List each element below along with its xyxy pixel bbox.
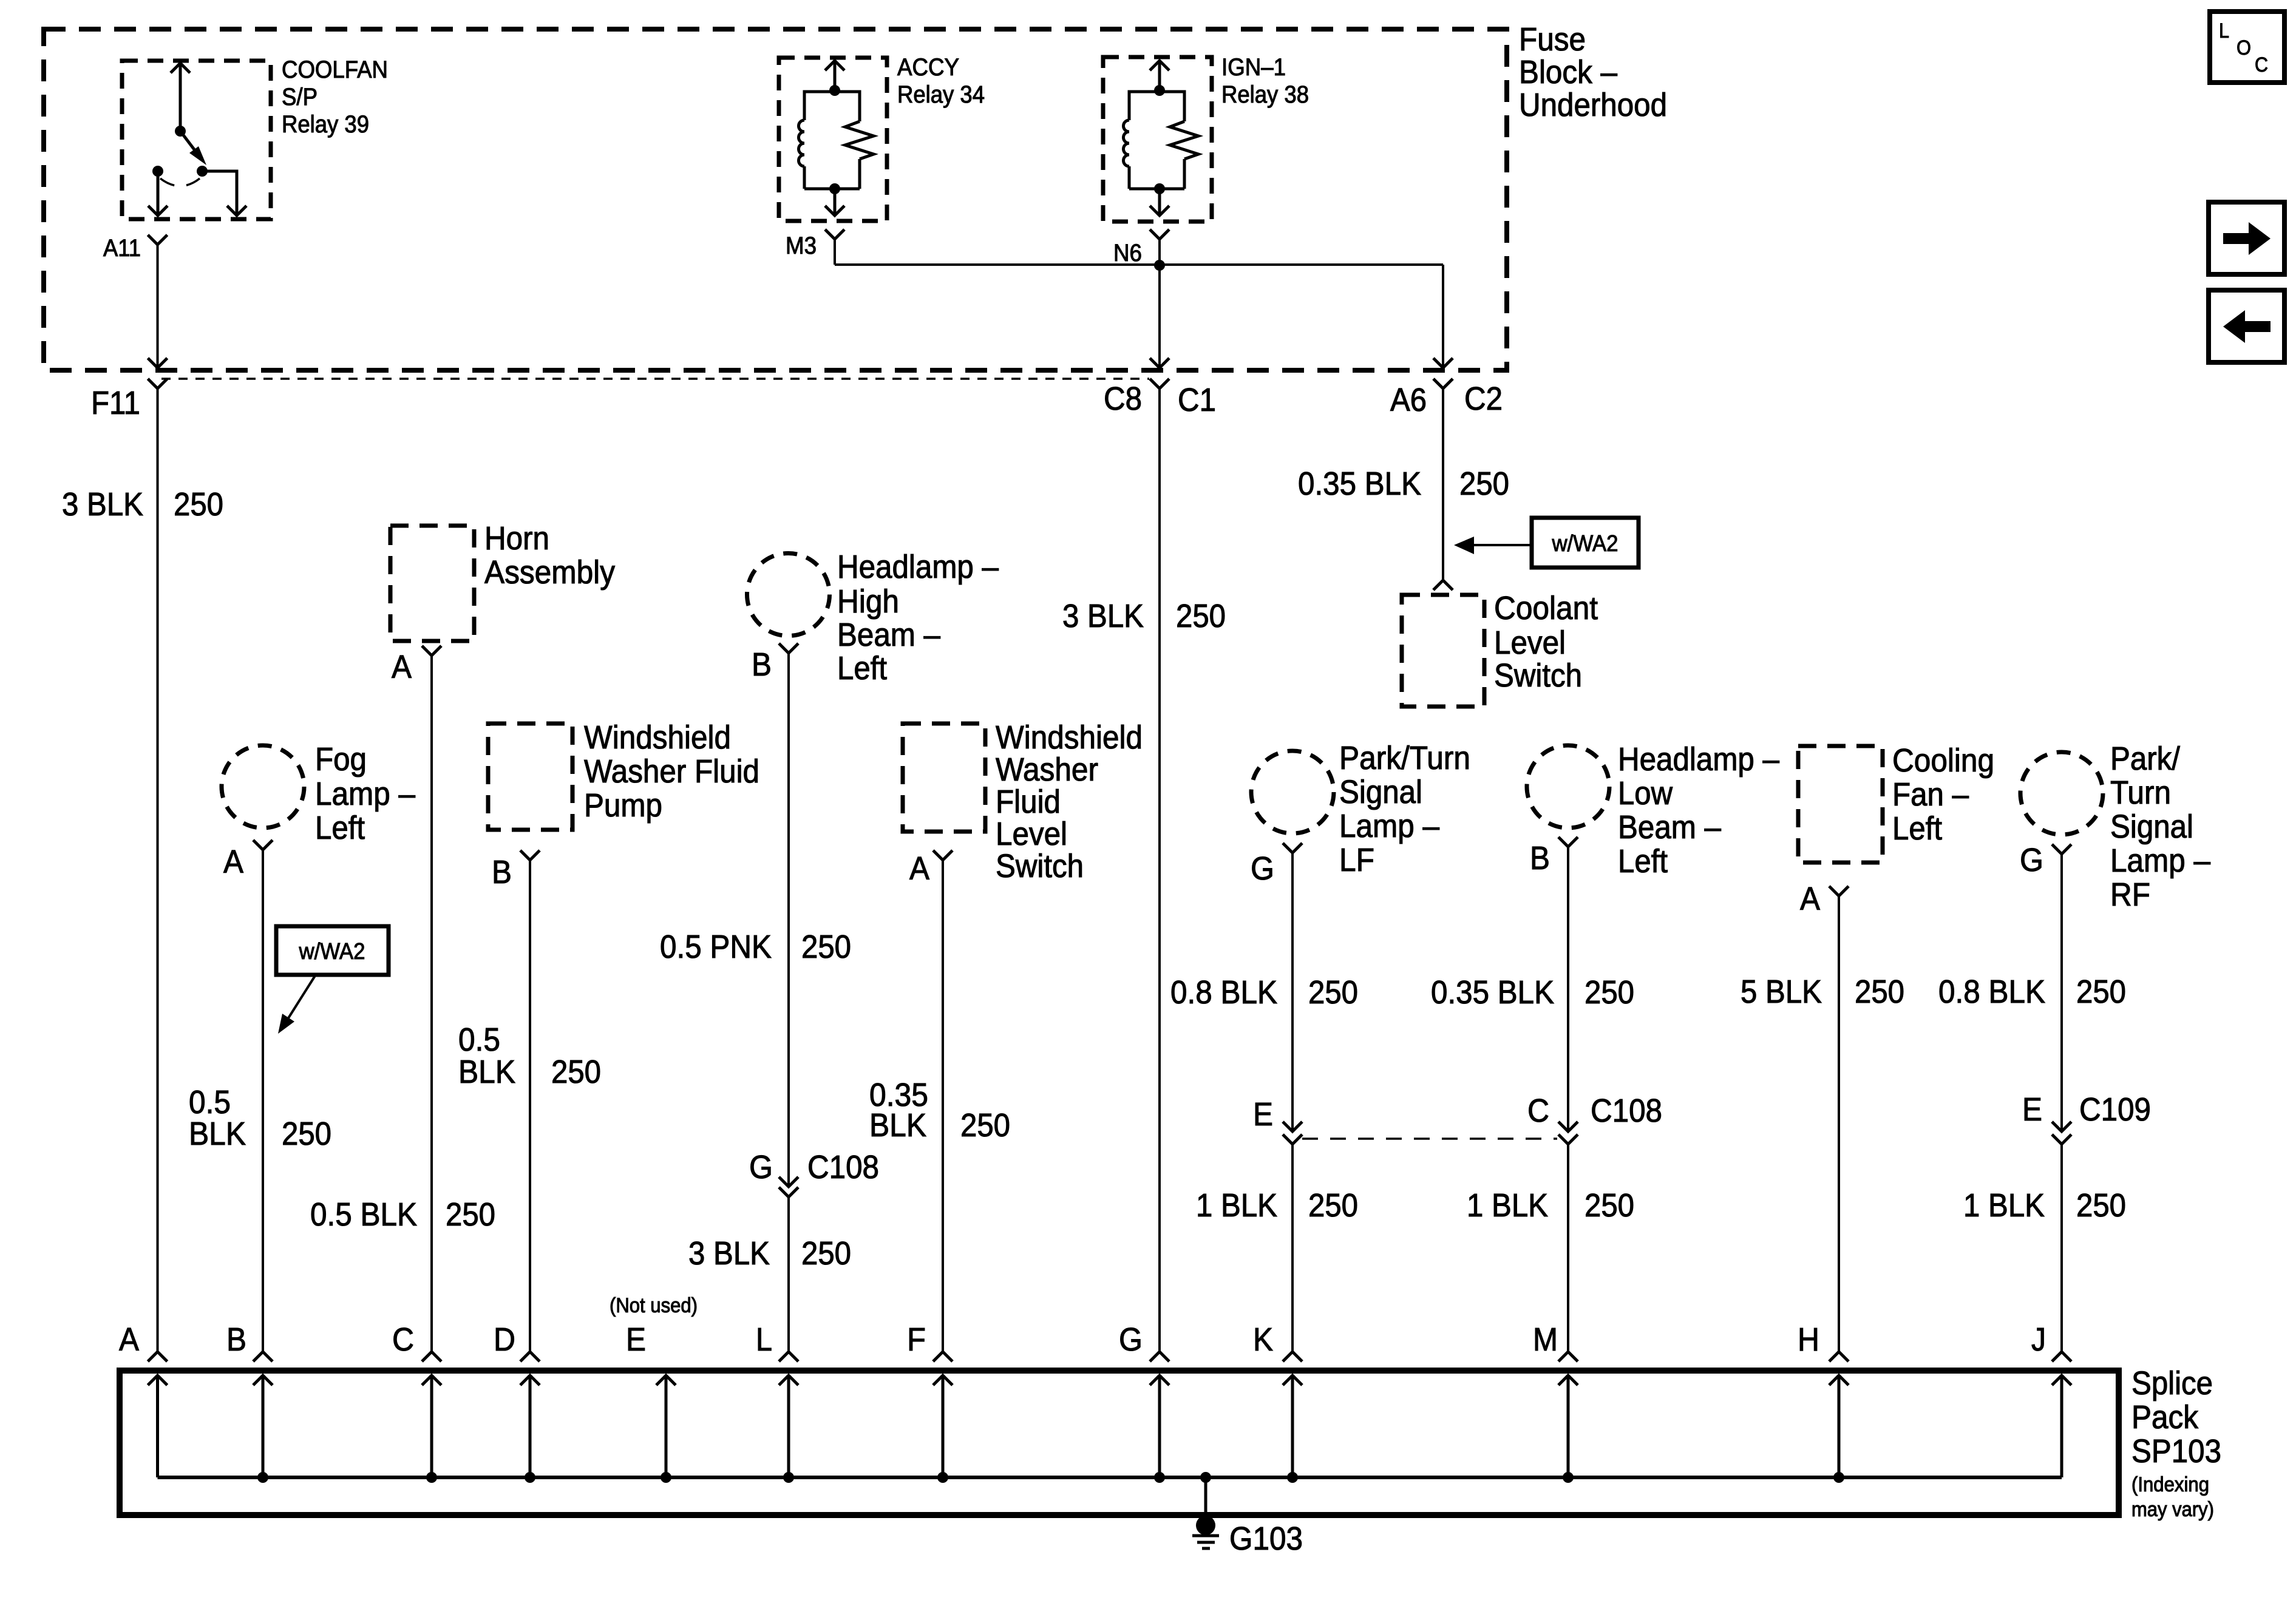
svg-text:A6: A6: [1390, 382, 1427, 418]
svg-text:A: A: [119, 1321, 139, 1358]
headlamp high beam left (dashed circle): [747, 554, 830, 636]
svg-text:Pack: Pack: [2131, 1399, 2199, 1436]
windshield washer fluid pump (dashed box): [488, 724, 572, 830]
relay K39 label: [282, 56, 388, 138]
svg-text:O: O: [2237, 36, 2251, 59]
callout arrow w/WA2 to C2 wire: [1454, 537, 1532, 554]
relay K34 coil winding (left branch): [799, 92, 835, 189]
svg-text:BLK: BLK: [869, 1107, 926, 1144]
cooling fan label: [1892, 742, 1994, 847]
svg-text:IGN–1: IGN–1: [1221, 54, 1286, 81]
svg-text:F11: F11: [91, 385, 140, 421]
svg-text:Fluid: Fluid: [996, 784, 1061, 820]
wire cooling fan to splice terminal H: [1838, 896, 1840, 1352]
svg-text:0.35 BLK: 0.35 BLK: [1298, 466, 1421, 502]
wire label 0.5 PNK 250: [660, 929, 851, 965]
svg-text:BLK: BLK: [189, 1116, 246, 1152]
svg-text:250: 250: [2076, 974, 2126, 1010]
wire label 0.8 BLK 250 (RF wire): [1938, 974, 2126, 1010]
wire label 5 BLK 250 (cooling fan wire): [1741, 974, 1904, 1010]
svg-text:may vary): may vary): [2131, 1498, 2214, 1521]
terminal A wire end connector: [148, 1352, 168, 1361]
svg-text:A: A: [223, 844, 243, 880]
wire park/turn LF upper segment: [1291, 853, 1294, 1131]
pin G connector (park/turn LF): [1283, 843, 1302, 853]
splice stub C: [422, 1375, 441, 1483]
pin B connector (washer pump): [520, 850, 540, 860]
headlamp low beam label: [1618, 741, 1779, 880]
svg-text:E: E: [1253, 1096, 1273, 1133]
svg-text:250: 250: [1459, 466, 1509, 502]
svg-text:Windshield: Windshield: [584, 719, 731, 756]
coolant level switch label: [1494, 590, 1598, 694]
park/turn signal lamp LF (dashed circle): [1251, 751, 1334, 833]
svg-text:Underhood: Underhood: [1519, 87, 1667, 123]
relay K34 label: [897, 54, 985, 108]
LOC legend box: [2210, 12, 2284, 83]
relay K39 throw arc (dashed): [160, 178, 200, 186]
svg-text:G: G: [1119, 1321, 1143, 1358]
wire low beam upper segment: [1567, 847, 1569, 1131]
svg-text:C109: C109: [2079, 1091, 2151, 1128]
relay K39 movable contact arm (diagonal arrow): [180, 131, 206, 165]
svg-text:COOLFAN: COOLFAN: [282, 56, 388, 83]
svg-text:Assembly: Assembly: [484, 554, 615, 591]
wire C1 to splice pack terminal G: [1158, 388, 1161, 1352]
relay K38 suppression resistor (right branch): [1160, 92, 1198, 189]
headlamp low beam left (dashed circle): [1527, 745, 1609, 828]
pin G connector (park/turn RF): [2052, 844, 2071, 854]
wire label 1 BLK 250 (RF lower): [1963, 1187, 2126, 1224]
svg-text:Headlamp –: Headlamp –: [1618, 741, 1779, 778]
svg-text:F: F: [907, 1321, 926, 1358]
wire park/turn RF upper segment: [2060, 854, 2063, 1131]
svg-text:B: B: [226, 1321, 246, 1358]
terminal H wire end connector: [1829, 1352, 1849, 1361]
relay K34 coil feed arrow (top): [825, 61, 844, 96]
svg-text:Washer: Washer: [996, 751, 1098, 788]
svg-text:K: K: [1253, 1321, 1273, 1358]
svg-text:G: G: [749, 1149, 773, 1185]
svg-text:250: 250: [1584, 1187, 1634, 1224]
relay K38 label: [1221, 54, 1309, 108]
wire M3 stem: [834, 239, 836, 265]
connector C108 on high beam wire (male/female halves): [779, 1177, 798, 1197]
cooling fan left (dashed box): [1798, 746, 1883, 863]
relay K34 suppression resistor (right branch): [835, 92, 874, 189]
svg-text:Relay 34: Relay 34: [897, 81, 985, 108]
svg-text:1 BLK: 1 BLK: [1467, 1187, 1548, 1224]
terminal G wire end connector: [1150, 1352, 1169, 1361]
wire label 1 BLK 250 (low beam lower): [1467, 1187, 1634, 1224]
fog lamp label: [315, 741, 415, 846]
splice stub J: [2052, 1375, 2071, 1477]
wire label 0.5 BLK 250 (fog wire): [189, 1084, 331, 1152]
relay K39 COOLFAN S/P Relay 39 (dashed box): [122, 61, 271, 219]
pin B connector (low beam): [1558, 837, 1578, 847]
svg-text:Fog: Fog: [315, 741, 367, 778]
terminal F wire end connector: [933, 1352, 953, 1361]
wire fog lamp to splice terminal B: [262, 850, 264, 1352]
pin B connector (high beam): [779, 643, 798, 653]
splice stub A: [148, 1375, 168, 1477]
svg-text:J: J: [2031, 1321, 2046, 1358]
splice stub B: [253, 1375, 273, 1483]
ground G103 drop wire: [1200, 1472, 1211, 1517]
connector exit F11 (female half): [148, 379, 168, 388]
svg-text:Fan –: Fan –: [1892, 776, 1969, 813]
svg-text:Left: Left: [837, 650, 887, 686]
svg-text:Lamp –: Lamp –: [315, 776, 415, 812]
wire M3 to C2 feed (horizontal): [835, 263, 1443, 266]
fuse block label: [1519, 21, 1667, 123]
connector C108 pin E on LF wire (male/female halves): [1283, 1122, 1302, 1144]
svg-text:250: 250: [1176, 598, 1226, 634]
svg-text:Coolant: Coolant: [1494, 590, 1598, 626]
splice stub L: [779, 1375, 798, 1483]
splice stub E: [656, 1375, 676, 1483]
svg-text:1 BLK: 1 BLK: [1196, 1187, 1277, 1224]
callout box w/WA2 (coolant wire): [1532, 518, 1639, 568]
pin A connector (fluid level switch): [933, 850, 953, 860]
wire label 0.8 BLK 250 (LF wire): [1170, 974, 1358, 1011]
svg-text:B: B: [492, 854, 512, 890]
svg-text:E: E: [2022, 1091, 2042, 1128]
svg-text:Cooling: Cooling: [1892, 742, 1994, 779]
relay K38 coil feed arrow (top): [1150, 61, 1169, 96]
wire label 3 BLK 250 (C1 wire): [1062, 598, 1226, 634]
pin A11 connector: [148, 235, 168, 245]
svg-text:D: D: [494, 1321, 515, 1358]
svg-text:LF: LF: [1339, 842, 1374, 878]
connector at coolant level switch (wire end): [1433, 580, 1453, 590]
wire label 0.5 BLK 250 (horn wire): [310, 1196, 495, 1233]
svg-text:0.8 BLK: 0.8 BLK: [1170, 974, 1277, 1011]
svg-text:Relay 39: Relay 39: [282, 111, 369, 138]
windshield washer fluid pump label: [584, 719, 759, 824]
relay K34 coil return arrow (bottom): [804, 183, 860, 215]
svg-text:Low: Low: [1618, 775, 1673, 812]
svg-text:E: E: [626, 1321, 646, 1358]
relay K38 coil return arrow (bottom): [1129, 183, 1184, 215]
terminal C wire end connector: [422, 1352, 441, 1361]
svg-text:G103: G103: [1229, 1520, 1303, 1557]
svg-text:BLK: BLK: [458, 1054, 515, 1090]
svg-text:C: C: [2255, 53, 2268, 76]
svg-text:0.5: 0.5: [458, 1022, 500, 1058]
svg-text:3 BLK: 3 BLK: [1062, 598, 1144, 634]
horn assembly (dashed box): [390, 526, 474, 641]
ground G103 symbol: [1192, 1516, 1219, 1548]
svg-text:Level: Level: [996, 816, 1067, 852]
relay K34 ACCY Relay 34 (dashed box): [779, 58, 887, 221]
svg-text:Fuse: Fuse: [1519, 21, 1586, 58]
windshield washer fluid level switch label: [996, 719, 1143, 884]
pin M3 connector: [825, 229, 844, 239]
relay K38 coil winding (left branch): [1124, 92, 1160, 189]
svg-text:Left: Left: [1618, 843, 1668, 880]
svg-text:Signal: Signal: [2110, 808, 2193, 845]
svg-text:250: 250: [1308, 1187, 1358, 1224]
pin N6 connector: [1150, 229, 1169, 239]
wire N6 stem: [1158, 239, 1161, 265]
svg-text:250: 250: [1855, 974, 1904, 1010]
svg-text:N6: N6: [1113, 240, 1142, 266]
svg-text:Turn: Turn: [2110, 775, 2171, 811]
wire down to C2 exit: [1442, 265, 1444, 368]
wire A11 to F11 exit: [157, 245, 159, 368]
svg-text:0.5 PNK: 0.5 PNK: [660, 929, 772, 965]
wire label 3 BLK 250 (F11 wire): [62, 486, 223, 523]
svg-text:Switch: Switch: [1494, 657, 1582, 694]
pin A connector (horn): [422, 646, 441, 656]
wire label 3 BLK 250 (high beam lower): [688, 1235, 851, 1272]
svg-text:Switch: Switch: [996, 848, 1084, 884]
svg-text:250: 250: [960, 1107, 1010, 1144]
svg-text:Signal: Signal: [1339, 774, 1422, 810]
fog lamp left (dashed circle): [222, 745, 304, 828]
terminal J wire end connector: [2052, 1352, 2071, 1361]
svg-text:Washer Fluid: Washer Fluid: [584, 753, 759, 790]
terminal M wire end connector: [1558, 1352, 1578, 1361]
wire fluid level switch to splice terminal F: [942, 860, 944, 1352]
svg-text:S/P: S/P: [282, 84, 318, 110]
wire high beam lower segment to splice terminal L: [787, 1197, 790, 1352]
park/turn signal lamp RF label: [2110, 741, 2210, 913]
svg-text:Beam –: Beam –: [837, 617, 940, 653]
terminal K wire end connector: [1283, 1352, 1302, 1361]
svg-text:C108: C108: [1591, 1093, 1662, 1129]
svg-text:C1: C1: [1178, 382, 1216, 418]
svg-text:M3: M3: [786, 232, 817, 259]
svg-text:250: 250: [1308, 974, 1358, 1011]
wire C2 to coolant level switch: [1442, 388, 1444, 580]
svg-text:A11: A11: [103, 235, 141, 262]
wire label 0.35 BLK 250 (fluid level switch wire): [869, 1077, 1010, 1144]
svg-text:L: L: [756, 1321, 772, 1358]
svg-text:C108: C108: [807, 1149, 879, 1185]
harness separator (thin dashed line): [161, 378, 1149, 380]
splice stub H: [1829, 1375, 1849, 1483]
callout box w/WA2 (fog lamp wire): [276, 926, 389, 975]
nav arrow box (back): [2209, 290, 2284, 362]
svg-text:250: 250: [446, 1196, 495, 1233]
svg-text:RF: RF: [2110, 876, 2150, 913]
terminal L wire end connector: [779, 1352, 798, 1361]
svg-text:A: A: [1800, 881, 1820, 917]
svg-text:Relay 38: Relay 38: [1221, 81, 1309, 108]
svg-text:w/WA2: w/WA2: [1552, 531, 1618, 557]
connector C108 pin C on low beam wire (male/female halves): [1558, 1122, 1578, 1144]
svg-text:Park/Turn: Park/Turn: [1339, 740, 1470, 776]
svg-text:Lamp –: Lamp –: [1339, 808, 1439, 844]
park/turn signal lamp LF label: [1339, 740, 1470, 878]
relay K39 NC contact (left, arrow down to A11): [148, 166, 168, 215]
wire horn to splice pack terminal C: [430, 656, 433, 1352]
svg-text:3 BLK: 3 BLK: [688, 1235, 770, 1272]
svg-text:Park/: Park/: [2110, 741, 2180, 777]
connector exit C8/C1 (female half): [1150, 379, 1169, 388]
windshield washer fluid level switch (dashed box): [903, 724, 985, 832]
svg-text:Windshield: Windshield: [996, 719, 1143, 756]
wire low beam lower segment to splice terminal M: [1567, 1144, 1569, 1352]
relay K38 IGN-1 Relay 38 (dashed box): [1103, 57, 1212, 222]
headlamp high beam label: [837, 549, 999, 686]
wire park/turn LF lower segment to splice terminal K: [1291, 1144, 1294, 1352]
svg-text:Beam –: Beam –: [1618, 809, 1721, 846]
splice stub M: [1558, 1375, 1578, 1483]
wire N6 down to C1 exit: [1158, 265, 1161, 368]
svg-text:3 BLK: 3 BLK: [62, 486, 143, 523]
terminal B wire end connector: [253, 1352, 273, 1361]
svg-text:Left: Left: [315, 810, 365, 846]
horn assembly label: [484, 520, 615, 591]
svg-text:B: B: [1530, 840, 1550, 876]
svg-text:A: A: [392, 649, 412, 685]
svg-text:High: High: [837, 583, 899, 620]
relay K39 switch common arm (arrow up to pin 30): [171, 63, 190, 137]
node junction at N6: [1154, 260, 1165, 271]
svg-text:250: 250: [801, 1235, 851, 1272]
connector exit A6/C2 (male arrow): [1433, 358, 1453, 368]
svg-text:Pump: Pump: [584, 787, 662, 824]
svg-text:SP103: SP103: [2131, 1433, 2221, 1470]
svg-text:(Indexing: (Indexing: [2131, 1473, 2209, 1496]
svg-text:(Not used): (Not used): [610, 1294, 698, 1317]
svg-text:Splice: Splice: [2131, 1365, 2213, 1402]
svg-text:Headlamp –: Headlamp –: [837, 549, 999, 585]
svg-text:5 BLK: 5 BLK: [1741, 974, 1822, 1010]
svg-text:C8: C8: [1104, 381, 1142, 417]
wire high beam upper segment: [787, 653, 790, 1187]
svg-text:250: 250: [551, 1054, 601, 1090]
wire label 0.5 BLK 250 (washer pump wire): [458, 1022, 601, 1090]
splice stub F: [933, 1375, 953, 1483]
nav arrow box (forward): [2209, 202, 2284, 274]
wire label 0.35 BLK 250 (low beam wire): [1431, 974, 1634, 1011]
svg-text:1 BLK: 1 BLK: [1963, 1187, 2045, 1224]
svg-text:0.5: 0.5: [189, 1084, 231, 1120]
svg-text:L: L: [2219, 19, 2229, 42]
relay K39 NO contact to output (right, arrow down): [197, 166, 246, 215]
svg-text:0.35 BLK: 0.35 BLK: [1431, 974, 1554, 1011]
svg-text:0.8 BLK: 0.8 BLK: [1938, 974, 2045, 1010]
svg-text:C: C: [1527, 1093, 1549, 1129]
svg-text:C: C: [392, 1321, 414, 1358]
connector exit F11 (male arrow at fuse block edge): [148, 358, 168, 368]
svg-text:Block –: Block –: [1519, 54, 1617, 90]
wire F11 to splice pack terminal A: [157, 388, 159, 1352]
svg-text:w/WA2: w/WA2: [299, 939, 365, 964]
wire washer pump to splice terminal D: [529, 860, 531, 1352]
wire label 0.35 BLK 250 (C2 wire): [1298, 466, 1509, 502]
svg-text:Lamp –: Lamp –: [2110, 842, 2210, 879]
svg-text:G: G: [2020, 842, 2043, 878]
splice stub K: [1283, 1375, 1302, 1483]
svg-text:250: 250: [2076, 1187, 2126, 1224]
splice pack label: [2131, 1365, 2221, 1521]
splice stub G: [1150, 1375, 1169, 1483]
svg-text:A: A: [909, 850, 929, 887]
connector C109 pin E on RF wire (male/female halves): [2052, 1122, 2071, 1144]
pin A connector (cooling fan): [1829, 886, 1849, 896]
connector exit C8/C1 (male arrow): [1150, 358, 1169, 368]
svg-text:250: 250: [1584, 974, 1634, 1011]
svg-text:ACCY: ACCY: [897, 54, 959, 81]
connector link E to C (dashed): [1302, 1137, 1557, 1140]
svg-text:Horn: Horn: [484, 520, 549, 557]
callout arrow w/WA2 to fog wire: [278, 975, 316, 1034]
svg-text:0.5 BLK: 0.5 BLK: [310, 1196, 417, 1233]
svg-text:250: 250: [174, 486, 223, 523]
svg-text:G: G: [1251, 850, 1274, 887]
svg-text:B: B: [752, 646, 772, 683]
wire label 1 BLK 250 (LF lower): [1196, 1187, 1358, 1224]
splice bus bar: [158, 1476, 2062, 1479]
svg-text:H: H: [1798, 1321, 1819, 1358]
svg-text:Level: Level: [1494, 625, 1566, 661]
splice stub D: [520, 1375, 540, 1483]
splice pack SP103 (box): [120, 1371, 2119, 1515]
park/turn signal lamp RF (dashed circle): [2020, 752, 2103, 835]
connector exit A6/C2 (female half): [1433, 379, 1453, 388]
wire park/turn RF lower segment to splice terminal J: [2060, 1144, 2063, 1352]
fuse block Fuse Block - Underhood (dashed outline): [44, 29, 1507, 370]
svg-text:250: 250: [801, 929, 851, 965]
svg-text:Left: Left: [1892, 810, 1942, 847]
coolant level switch (dashed box): [1402, 595, 1484, 707]
terminal D wire end connector: [520, 1352, 540, 1361]
pin A connector (fog lamp): [253, 840, 273, 850]
svg-text:250: 250: [282, 1116, 331, 1152]
svg-text:C2: C2: [1464, 381, 1503, 417]
svg-text:M: M: [1533, 1321, 1558, 1358]
